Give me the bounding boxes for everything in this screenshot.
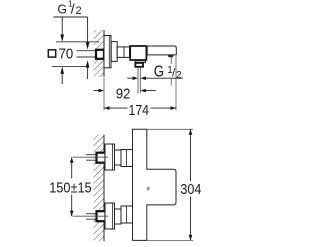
- 150±15 dimension: [73, 156, 109, 158]
- leader down-right with arrow to stub top: [87, 17, 89, 44]
- escutcheon (side): [104, 36, 111, 68]
- 92 dimension: [103, 78, 105, 111]
- housings: [121, 150, 133, 167]
- G 1/2 (second): [154, 63, 182, 81]
- body: [133, 129, 177, 240]
- supply pipes: [86, 154, 97, 156]
- handle (square, side view): [130, 46, 146, 60]
- square symbol + 70: [48, 50, 55, 57]
- body: [111, 42, 117, 62]
- svg-text:304: 304: [180, 180, 201, 197]
- svg-text:150±15: 150±15: [49, 178, 92, 195]
- wall (hatched strip): [94, 30, 104, 77]
- outlet ext verticals: [137, 67, 139, 93]
- svg-text:/: /: [71, 0, 75, 16]
- svg-text:2: 2: [76, 5, 82, 17]
- escutcheons: [105, 144, 115, 170]
- nuts: [115, 150, 122, 165]
- 150±15: [49, 178, 92, 195]
- supply pipe lines: [77, 50, 96, 52]
- neck: [117, 47, 129, 58]
- stubs: [97, 153, 106, 163]
- pipe stub (G1/2 connection behind wall): [96, 50, 104, 59]
- svg-text:70: 70: [59, 45, 74, 62]
- line L2: [52, 66, 88, 68]
- shower outlet nipple: [135, 63, 143, 67]
- shower outlet below handle: flange: [135, 61, 145, 63]
- 174: [129, 102, 150, 118]
- svg-text:G: G: [154, 63, 164, 80]
- svg-text:2: 2: [176, 70, 182, 81]
- G 1/2 top label underline: [54, 16, 88, 18]
- aerator axis line: [170, 58, 172, 64]
- wall (hatched strip): [94, 135, 105, 242]
- up arrow to stub bottom (right): [86, 60, 90, 67]
- 92: [116, 85, 131, 102]
- wall face line: [103, 30, 105, 77]
- 304 dimension: [147, 128, 193, 130]
- svg-text:G: G: [58, 2, 67, 17]
- svg-text:174: 174: [129, 102, 150, 118]
- 174 dimension: [175, 56, 177, 111]
- spout: [147, 46, 176, 55]
- G 1/2 (top): [58, 0, 82, 17]
- leader arrow + underline: [140, 76, 146, 80]
- 304: [180, 180, 201, 197]
- leader down-left with arrow to line L1: [61, 17, 63, 35]
- logo mark on body: [147, 187, 150, 191]
- line L1: [56, 41, 99, 43]
- up arrow to L2 (left): [60, 67, 64, 74]
- svg-text:92: 92: [116, 85, 131, 102]
- second G1/2 label: right-pointing arrow: [127, 77, 132, 79]
- aerator: [168, 55, 174, 57]
